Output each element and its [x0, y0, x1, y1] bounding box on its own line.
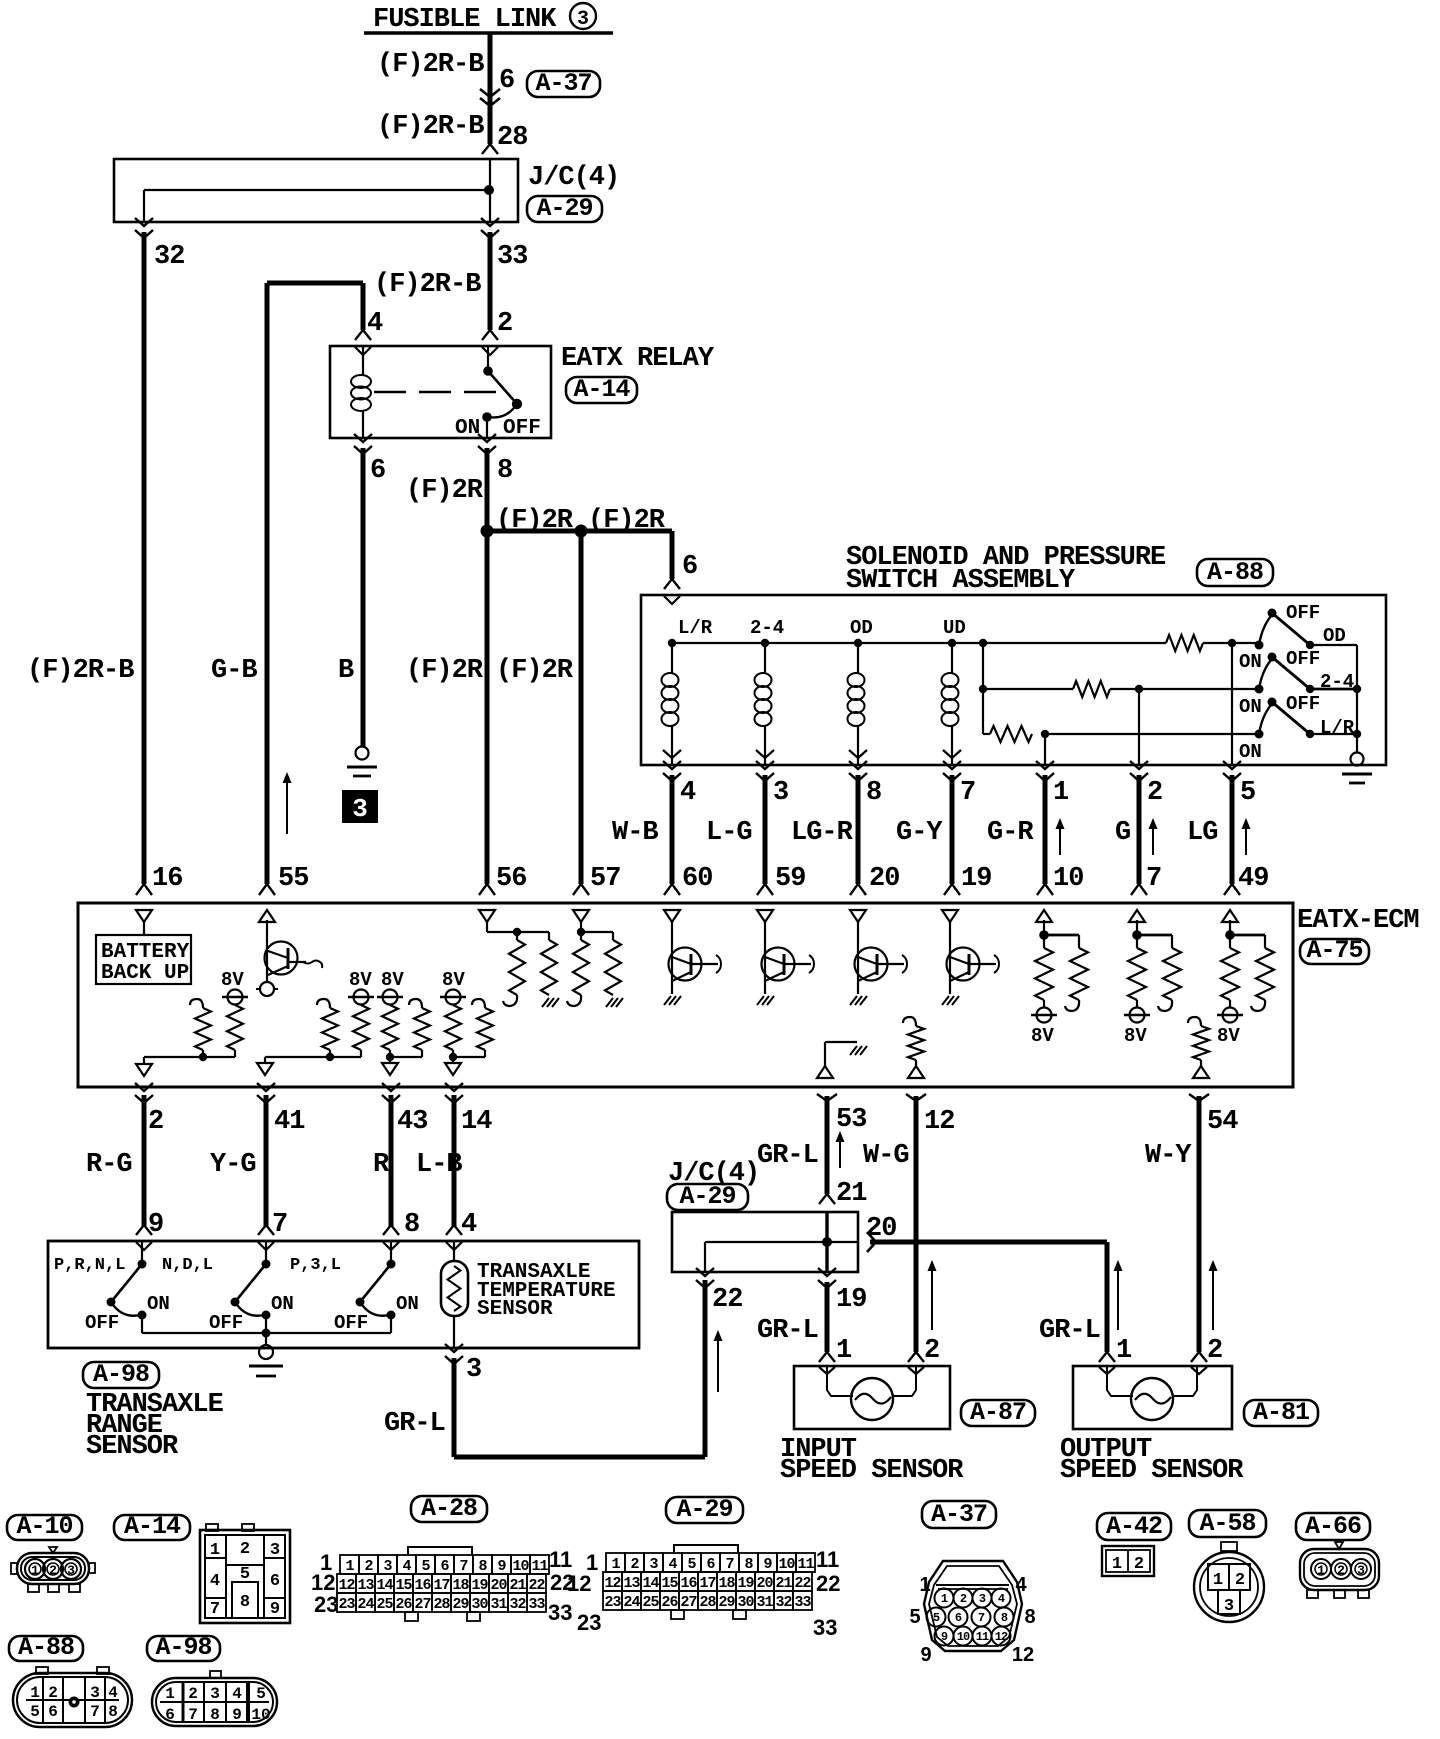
svg-text:8V: 8V	[349, 969, 372, 991]
svg-text:23: 23	[338, 1596, 355, 1613]
svg-text:4: 4	[668, 1556, 677, 1573]
svg-text:22: 22	[794, 1575, 811, 1592]
svg-text:8: 8	[1001, 1611, 1008, 1625]
ECM pin 20 triangle	[850, 910, 866, 922]
svg-text:A-29: A-29	[536, 194, 592, 223]
svg-text:2: 2	[148, 1107, 163, 1137]
svg-text:6: 6	[165, 1706, 175, 1724]
range sensor common bus	[142, 1332, 391, 1334]
svg-text:3: 3	[90, 1684, 100, 1702]
svg-text:GR-L: GR-L	[757, 1316, 818, 1346]
arrow up beside 53 wire	[839, 1135, 841, 1168]
svg-text:23: 23	[314, 1592, 338, 1617]
svg-text:A-88: A-88	[18, 1633, 74, 1662]
connector A-66 view	[1296, 1513, 1370, 1540]
svg-text:4: 4	[367, 309, 383, 339]
svg-text:32: 32	[509, 1596, 526, 1613]
svg-text:(F)2R: (F)2R	[496, 656, 574, 686]
svg-text:ON: ON	[1239, 651, 1262, 673]
svg-text:1: 1	[941, 1592, 948, 1606]
svg-text:(F)2R: (F)2R	[406, 476, 484, 506]
relay EATX RELAY A-14 box	[330, 346, 551, 438]
svg-text:25: 25	[642, 1594, 659, 1611]
svg-text:OFF: OFF	[1286, 648, 1320, 670]
svg-text:27: 27	[414, 1596, 430, 1613]
svg-text:OFF: OFF	[503, 417, 541, 440]
svg-text:G: G	[1115, 818, 1130, 848]
svg-text:A-98: A-98	[155, 1633, 211, 1662]
svg-text:7: 7	[188, 1706, 198, 1724]
svg-text:6: 6	[682, 552, 697, 582]
svg-text:29: 29	[718, 1594, 735, 1611]
svg-text:1: 1	[210, 1541, 220, 1560]
wire J/C pin 19 GR-L to input speed sensor pin 1	[818, 1268, 836, 1276]
resistor pair R3 R4 with 8V for pin 41	[317, 999, 330, 1008]
wire ECM pin 14 down	[445, 1083, 463, 1091]
svg-text:8: 8	[744, 1556, 753, 1573]
svg-text:19: 19	[961, 864, 991, 894]
svg-text:1: 1	[31, 1563, 39, 1578]
svg-text:57: 57	[590, 864, 620, 894]
svg-text:2: 2	[240, 1540, 250, 1559]
svg-text:28: 28	[497, 123, 527, 153]
svg-text:21: 21	[775, 1575, 792, 1592]
wire ECM pin 54 W-Y to output speed sensor pin 2	[1189, 1094, 1209, 1101]
svg-text:3: 3	[1357, 1563, 1365, 1578]
svg-text:SENSOR: SENSOR	[477, 1298, 553, 1321]
svg-text:L/R: L/R	[1320, 717, 1355, 739]
svg-text:4: 4	[1015, 1574, 1027, 1596]
resistor pair with 8V regulator ECM pin 10	[1043, 920, 1045, 948]
svg-text:A-81: A-81	[1253, 1398, 1309, 1427]
svg-text:10: 10	[251, 1706, 270, 1724]
svg-text:11: 11	[797, 1556, 814, 1573]
svg-text:EATX RELAY: EATX RELAY	[561, 344, 715, 374]
svg-text:43: 43	[397, 1107, 427, 1137]
svg-text:5: 5	[256, 1685, 266, 1703]
svg-text:ON: ON	[455, 417, 480, 440]
svg-text:14: 14	[461, 1107, 492, 1137]
pressure switch OD	[1255, 641, 1264, 650]
svg-text:31: 31	[490, 1596, 507, 1613]
svg-text:4: 4	[210, 1572, 220, 1591]
svg-text:56: 56	[496, 864, 526, 894]
resistor pressure switch 2-4 row	[1073, 681, 1110, 697]
svg-text:SPEED SENSOR: SPEED SENSOR	[1060, 1456, 1244, 1486]
wire pin 32 from J/C(4)	[135, 218, 153, 226]
svg-text:7: 7	[210, 1600, 220, 1619]
svg-text:3: 3	[1224, 1597, 1234, 1616]
resistor pair R11 R12 pin 57	[580, 920, 582, 932]
svg-text:N,D,L: N,D,L	[162, 1256, 213, 1275]
svg-text:3: 3	[577, 8, 589, 31]
wire solenoid pin 3 to ECM pin 59	[756, 761, 774, 769]
svg-text:P,3,L: P,3,L	[290, 1256, 341, 1275]
svg-text:10: 10	[957, 1630, 970, 1644]
ECM pin 14 triangle	[445, 1063, 461, 1075]
node L/R	[668, 639, 676, 647]
svg-text:2: 2	[960, 1592, 967, 1606]
svg-text:9: 9	[920, 1644, 931, 1666]
wire (F)2R-B branch to relay pin 4	[267, 281, 363, 286]
node OD	[854, 639, 862, 647]
switch P,R,N,L in range sensor	[141, 1241, 143, 1264]
node ground ref 3 black box	[343, 791, 377, 822]
svg-text:59: 59	[775, 864, 805, 894]
svg-text:8: 8	[240, 1593, 250, 1612]
arrow up G-R	[1059, 822, 1061, 855]
svg-text:J/C(4): J/C(4)	[528, 163, 619, 193]
svg-text:6: 6	[440, 1558, 449, 1575]
svg-text:3: 3	[67, 1563, 75, 1578]
svg-text:LG-R: LG-R	[791, 818, 854, 848]
svg-text:5: 5	[1240, 778, 1255, 808]
wire pin2 column	[1138, 689, 1140, 765]
wire solenoid pin 2 to ECM pin 7	[1130, 761, 1148, 769]
svg-text:22: 22	[528, 1577, 545, 1594]
svg-text:(F)2R: (F)2R	[588, 506, 666, 536]
svg-text:19: 19	[737, 1575, 754, 1592]
ground symbol for B wire	[356, 747, 369, 760]
svg-text:LG: LG	[1187, 818, 1217, 848]
svg-text:5: 5	[30, 1703, 40, 1721]
svg-text:3: 3	[466, 1355, 481, 1385]
wire GR-L from temp sensor pin 3 to J/C(4) pin 22	[445, 1344, 463, 1352]
connector A-37 view	[922, 1501, 996, 1528]
svg-text:2: 2	[924, 1336, 939, 1366]
wire solenoid pin 8 to ECM pin 20	[849, 761, 867, 769]
svg-text:5: 5	[687, 1556, 696, 1573]
connector A-98 label and name	[83, 1362, 159, 1388]
solenoid coil OD	[857, 643, 859, 673]
svg-text:4: 4	[402, 1558, 411, 1575]
svg-text:6: 6	[370, 456, 385, 486]
svg-text:A-10: A-10	[16, 1512, 72, 1541]
resistor pair R1 R2 with 8V for pin 2	[190, 999, 203, 1008]
svg-text:28: 28	[699, 1594, 716, 1611]
resistor pair with 8V regulator ECM pin 49	[1229, 920, 1231, 948]
svg-text:3: 3	[773, 778, 788, 808]
svg-text:4: 4	[998, 1592, 1005, 1606]
arrow up beside output GR-L wire	[1117, 1264, 1119, 1330]
svg-text:11: 11	[549, 1547, 572, 1572]
svg-text:L/R: L/R	[678, 617, 713, 639]
svg-text:18: 18	[718, 1575, 735, 1592]
connector A-88 view	[9, 1636, 83, 1661]
transistor driver ECM pin 20	[857, 920, 859, 994]
wire solenoid pin 1 to ECM pin 10	[1036, 761, 1054, 769]
ECM pin 12 internals resistor	[903, 1017, 916, 1026]
svg-text:FUSIBLE LINK: FUSIBLE LINK	[373, 5, 557, 35]
relay switch contacts ON/OFF	[487, 346, 489, 370]
wire G-B vertical to ECM pin 55	[265, 283, 270, 884]
svg-text:4: 4	[461, 1210, 477, 1240]
svg-text:1: 1	[1317, 1563, 1325, 1578]
svg-text:ON: ON	[147, 1293, 170, 1315]
wire inside J/C(4)	[489, 159, 491, 222]
svg-text:20: 20	[756, 1575, 773, 1592]
svg-text:14: 14	[642, 1575, 659, 1592]
svg-text:2: 2	[1337, 1563, 1345, 1578]
svg-text:23: 23	[577, 1610, 601, 1635]
node row 2-4 tap	[979, 685, 987, 693]
svg-text:1: 1	[1112, 1555, 1122, 1574]
connector A-42 view	[1097, 1513, 1171, 1540]
resistor pair R9 R10 pin 56	[486, 920, 488, 932]
row 2-4 line	[983, 688, 1073, 690]
svg-text:33: 33	[548, 1600, 572, 1625]
wire relay pin 6 to ground B	[354, 434, 372, 442]
ground chassis range sensor	[259, 1345, 273, 1359]
connector A-28 view	[340, 1555, 359, 1574]
svg-text:7: 7	[960, 778, 975, 808]
svg-text:B: B	[338, 656, 354, 686]
svg-text:8V: 8V	[1031, 1025, 1054, 1047]
svg-text:W-G: W-G	[863, 1141, 909, 1171]
connector A-29 view	[606, 1553, 625, 1572]
svg-text:15: 15	[395, 1577, 412, 1594]
svg-text:A-14: A-14	[573, 375, 630, 404]
node bus tap	[979, 639, 987, 647]
svg-text:60: 60	[682, 864, 712, 894]
solenoid coil L/R	[671, 643, 673, 673]
svg-text:9: 9	[148, 1210, 163, 1240]
svg-text:19: 19	[471, 1577, 488, 1594]
svg-text:A-88: A-88	[1207, 558, 1263, 587]
svg-text:R: R	[373, 1150, 390, 1180]
svg-text:16: 16	[680, 1575, 697, 1592]
svg-text:12: 12	[338, 1577, 355, 1594]
arrow up beside pin22 wire	[717, 1334, 719, 1392]
wire pin 33 from J/C(4) to relay	[481, 218, 499, 226]
wire ECM pin 12 W-G to input speed sensor pin 2	[906, 1094, 926, 1101]
svg-text:(F)2R-B: (F)2R-B	[27, 656, 134, 686]
wire pin5 column	[1231, 643, 1233, 765]
svg-text:8V: 8V	[442, 969, 465, 991]
arrow up G	[1152, 822, 1154, 855]
svg-text:4: 4	[680, 778, 696, 808]
battery back up box	[143, 922, 145, 935]
svg-text:(F)2R: (F)2R	[496, 506, 574, 536]
wire ECM pin 53 to J/C pin 21	[817, 1094, 837, 1101]
svg-text:24: 24	[623, 1594, 640, 1611]
transistor Q1 ECM pin 55	[266, 920, 268, 981]
svg-text:A-37: A-37	[535, 69, 591, 98]
svg-text:17: 17	[699, 1575, 715, 1592]
ECM pin 59 triangle	[757, 910, 773, 922]
svg-text:6: 6	[270, 1572, 280, 1591]
svg-text:7: 7	[1146, 864, 1161, 894]
svg-text:20: 20	[490, 1577, 507, 1594]
svg-text:49: 49	[1238, 864, 1268, 894]
svg-text:6: 6	[955, 1611, 962, 1625]
svg-text:OD: OD	[850, 617, 873, 639]
svg-text:32: 32	[775, 1594, 792, 1611]
wire solenoid pin 5 to ECM pin 49	[1223, 761, 1241, 769]
svg-text:2: 2	[49, 1563, 57, 1578]
svg-text:ON: ON	[1239, 696, 1262, 718]
svg-text:2: 2	[364, 1558, 373, 1575]
solenoid bus top line	[672, 642, 1166, 644]
connector A-10 view	[7, 1515, 82, 1540]
svg-text:G-Y: G-Y	[896, 818, 943, 848]
svg-text:GR-L: GR-L	[757, 1141, 818, 1171]
svg-text:OFF: OFF	[209, 1312, 243, 1334]
svg-text:G-B: G-B	[211, 656, 257, 686]
svg-text:13: 13	[357, 1577, 374, 1594]
wire ECM pin 2 down	[135, 1083, 153, 1091]
svg-text:3: 3	[649, 1556, 658, 1573]
svg-text:A-87: A-87	[970, 1398, 1026, 1427]
svg-text:W-B: W-B	[612, 818, 658, 848]
ECM pin 55 triangle	[259, 910, 275, 922]
svg-text:33: 33	[794, 1594, 811, 1611]
ECM pin 2 triangle	[136, 1064, 152, 1076]
svg-text:12: 12	[1012, 1644, 1034, 1666]
node UD	[948, 639, 956, 647]
svg-text:BATTERY: BATTERY	[101, 941, 190, 964]
svg-text:8: 8	[404, 1210, 419, 1240]
ECM pin 49 triangle	[1222, 910, 1238, 922]
switch P,3,L in range sensor	[390, 1241, 392, 1264]
svg-text:23: 23	[604, 1594, 621, 1611]
svg-text:A-42: A-42	[1106, 1512, 1162, 1541]
svg-text:15: 15	[661, 1575, 678, 1592]
svg-text:A-37: A-37	[931, 1500, 987, 1529]
svg-text:1: 1	[165, 1685, 175, 1703]
svg-text:8: 8	[478, 1558, 487, 1575]
connector A-98 view	[147, 1636, 220, 1661]
svg-text:3: 3	[383, 1558, 392, 1575]
svg-text:SPEED SENSOR: SPEED SENSOR	[780, 1456, 964, 1486]
svg-text:BACK UP: BACK UP	[101, 962, 189, 985]
svg-text:30: 30	[471, 1596, 488, 1613]
svg-text:28: 28	[433, 1596, 450, 1613]
wire J/C pin 22 exit	[696, 1268, 714, 1276]
svg-text:A-75: A-75	[1306, 936, 1362, 965]
node pin2 tap	[1135, 685, 1143, 693]
svg-text:21: 21	[509, 1577, 526, 1594]
svg-text:P,R,N,L: P,R,N,L	[54, 1256, 125, 1275]
svg-text:A-29: A-29	[676, 1495, 732, 1524]
svg-text:ON: ON	[1239, 741, 1262, 763]
svg-text:7: 7	[90, 1703, 100, 1721]
svg-text:19: 19	[836, 1285, 866, 1315]
svg-text:7: 7	[725, 1556, 733, 1573]
svg-text:2: 2	[497, 309, 512, 339]
transistor driver ECM pin 19	[949, 920, 951, 994]
connector A-14 view	[114, 1515, 190, 1540]
transaxle temperature sensor	[441, 1261, 468, 1316]
svg-text:33: 33	[528, 1596, 545, 1613]
ECM pin 60 triangle	[664, 910, 680, 922]
wire switch common to ground	[1356, 645, 1358, 753]
svg-text:32: 32	[154, 242, 184, 272]
transistor driver ECM pin 60	[671, 920, 673, 994]
svg-text:1: 1	[611, 1556, 620, 1573]
svg-text:8: 8	[497, 456, 512, 486]
svg-text:OFF: OFF	[1286, 693, 1320, 715]
svg-text:5: 5	[421, 1558, 430, 1575]
solenoid coil UD	[951, 643, 953, 673]
svg-text:9: 9	[270, 1600, 280, 1619]
connector A-37 inline marker	[527, 71, 600, 97]
svg-text:1: 1	[345, 1558, 354, 1575]
svg-text:6: 6	[499, 66, 514, 96]
svg-text:12: 12	[995, 1630, 1008, 1644]
svg-text:31: 31	[756, 1594, 773, 1611]
ECM pin 7 triangle	[1129, 910, 1145, 922]
svg-text:A-29: A-29	[679, 1182, 735, 1211]
svg-text:11: 11	[976, 1630, 989, 1644]
svg-text:1: 1	[1053, 778, 1069, 808]
svg-text:A-66: A-66	[1305, 1512, 1361, 1541]
svg-text:3: 3	[979, 1592, 986, 1606]
svg-text:Y-G: Y-G	[210, 1150, 256, 1180]
svg-text:1: 1	[919, 1574, 930, 1596]
wire solenoid pin 4 to ECM pin 60	[663, 761, 681, 769]
relay dashed link	[374, 391, 506, 393]
ECM pin 10 triangle	[1036, 910, 1052, 922]
wire (F)2R junction bus to solenoid assembly	[487, 529, 672, 534]
relay coil	[362, 346, 364, 376]
svg-text:8: 8	[866, 778, 881, 808]
node middle J/C junction	[822, 1237, 832, 1247]
ECM EATX-ECM A-75 box	[78, 903, 1293, 1087]
svg-text:8V: 8V	[221, 969, 244, 991]
wire inside middle J/C(4)	[705, 1241, 858, 1243]
ECM pin 54 internals resistor	[1188, 1017, 1201, 1026]
output speed sensor A-81 box	[1073, 1366, 1232, 1429]
svg-text:2: 2	[1134, 1555, 1144, 1574]
ECM pin 57 triangle	[573, 910, 589, 922]
wire pin1 column	[1044, 734, 1046, 765]
svg-text:12: 12	[567, 1571, 591, 1596]
arrow up beside W-Y wire	[1212, 1264, 1214, 1330]
svg-text:8V: 8V	[381, 969, 404, 991]
svg-text:EATX-ECM: EATX-ECM	[1297, 906, 1419, 936]
svg-text:53: 53	[836, 1105, 866, 1135]
svg-text:54: 54	[1207, 1107, 1238, 1137]
ECM pin 19 triangle	[942, 910, 958, 922]
ground chassis solenoid assembly	[1351, 753, 1364, 766]
svg-text:9: 9	[941, 1630, 948, 1644]
svg-text:UD: UD	[943, 617, 966, 639]
svg-text:L-G: L-G	[706, 818, 752, 848]
node junction dot J/C(4)	[484, 185, 494, 195]
svg-text:5: 5	[240, 1565, 250, 1584]
svg-text:(F)2R-B: (F)2R-B	[377, 112, 484, 142]
node 2-4	[761, 639, 769, 647]
resistor pressure switch L/R row	[990, 726, 1032, 742]
svg-text:OFF: OFF	[85, 1312, 119, 1334]
solenoid coil 2-4	[764, 643, 766, 673]
svg-text:16: 16	[414, 1577, 431, 1594]
svg-text:6: 6	[706, 1556, 715, 1573]
svg-text:33: 33	[813, 1615, 837, 1640]
svg-text:30: 30	[737, 1594, 754, 1611]
svg-text:(F)2R: (F)2R	[406, 656, 484, 686]
ECM pin 56 triangle	[479, 910, 495, 922]
svg-text:10: 10	[1053, 864, 1083, 894]
svg-text:ON: ON	[271, 1293, 294, 1315]
ECM pin 43 triangle	[382, 1063, 398, 1075]
svg-text:10: 10	[778, 1556, 795, 1573]
node after OD resistor	[1228, 639, 1236, 647]
arrow up beside W-G wire	[931, 1264, 933, 1330]
pressure switch L/R	[1255, 730, 1264, 739]
svg-text:R-G: R-G	[86, 1150, 132, 1180]
